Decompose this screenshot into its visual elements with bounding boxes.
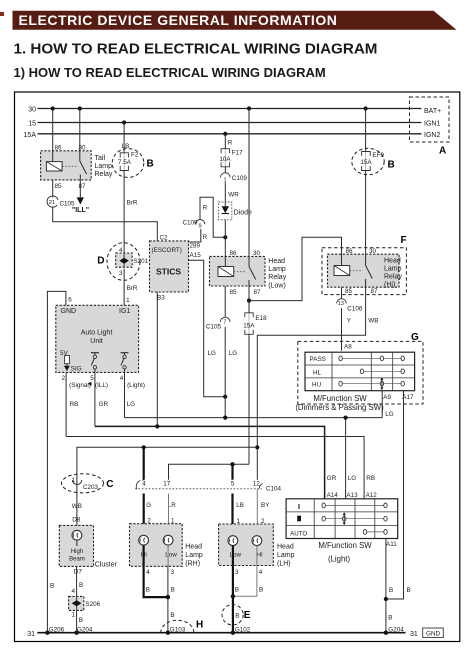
svg-text:(Light): (Light) <box>127 382 145 389</box>
svg-text:M/Function SW: M/Function SW <box>313 394 367 403</box>
svg-text:10A: 10A <box>219 156 231 163</box>
svg-text:30: 30 <box>28 107 36 114</box>
svg-text:G102: G102 <box>235 626 251 633</box>
svg-text:Lamp: Lamp <box>268 266 286 273</box>
svg-text:SIG: SIG <box>71 365 82 372</box>
svg-text:D7: D7 <box>74 569 83 576</box>
svg-text:A: A <box>439 146 446 157</box>
svg-text:F: F <box>401 235 407 246</box>
svg-text:Lamp: Lamp <box>185 552 203 559</box>
svg-text:Lamp: Lamp <box>277 552 295 559</box>
svg-text:5: 5 <box>231 481 235 488</box>
svg-text:GR: GR <box>99 401 109 408</box>
svg-text:B: B <box>388 615 392 622</box>
svg-text:B: B <box>407 587 411 594</box>
svg-text:Cluster: Cluster <box>95 561 118 568</box>
svg-text:WB: WB <box>72 503 82 510</box>
svg-text:B: B <box>79 617 83 624</box>
svg-text:15A: 15A <box>243 323 255 330</box>
svg-text:(RH): (RH) <box>185 561 200 568</box>
svg-text:1) HOW TO READ ELECTRICAL WIRI: 1) HOW TO READ ELECTRICAL WIRING DIAGRAM <box>14 65 326 80</box>
svg-text:4: 4 <box>119 247 123 254</box>
svg-text:4: 4 <box>146 569 150 576</box>
svg-text:RB: RB <box>366 475 375 482</box>
svg-text:B: B <box>388 160 395 171</box>
svg-text:R: R <box>203 204 208 211</box>
svg-text:D: D <box>97 255 104 266</box>
svg-text:2: 2 <box>61 375 65 382</box>
svg-text:87: 87 <box>253 289 261 296</box>
svg-text:87: 87 <box>370 288 378 295</box>
svg-text:F2: F2 <box>131 152 139 159</box>
svg-text:85: 85 <box>54 183 62 190</box>
svg-text:Lamp: Lamp <box>384 266 402 273</box>
svg-text:B: B <box>389 587 393 594</box>
svg-text:Beam: Beam <box>69 557 85 563</box>
svg-text:Relay: Relay <box>95 171 113 178</box>
svg-text:3: 3 <box>171 569 175 576</box>
svg-text:BrR: BrR <box>127 285 138 292</box>
svg-text:Low: Low <box>230 552 242 559</box>
svg-text:4: 4 <box>142 481 146 488</box>
svg-text:C109: C109 <box>182 219 198 226</box>
svg-text:LB: LB <box>236 502 244 509</box>
svg-text:B: B <box>235 587 239 594</box>
svg-text:Head: Head <box>268 258 285 265</box>
svg-text:C105: C105 <box>206 323 222 330</box>
svg-text:1: 1 <box>71 477 75 484</box>
svg-text:Hi: Hi <box>257 552 263 559</box>
svg-text:WR: WR <box>228 192 239 199</box>
svg-text:7.5A: 7.5A <box>118 159 132 166</box>
svg-text:Head: Head <box>277 544 294 551</box>
svg-text:A9: A9 <box>383 394 391 401</box>
svg-text:7: 7 <box>223 320 226 326</box>
svg-text:(Hi): (Hi) <box>384 282 395 289</box>
svg-text:BrR: BrR <box>127 199 138 206</box>
svg-text:13: 13 <box>338 301 344 307</box>
svg-text:6: 6 <box>68 297 72 304</box>
svg-text:G: G <box>146 502 151 509</box>
svg-text:F17: F17 <box>232 150 243 157</box>
svg-text:C: C <box>106 479 113 490</box>
svg-text:G204: G204 <box>77 626 93 633</box>
svg-text:GND: GND <box>61 308 77 315</box>
svg-text:B: B <box>170 612 174 619</box>
svg-text:(Light): (Light) <box>328 555 351 564</box>
svg-text:LG: LG <box>229 350 238 357</box>
svg-text:1: 1 <box>126 297 130 304</box>
svg-text:High: High <box>71 549 83 555</box>
svg-text:E: E <box>244 610 251 621</box>
svg-text:IGN2: IGN2 <box>424 132 440 139</box>
svg-text:C109: C109 <box>232 175 248 182</box>
svg-text:B3: B3 <box>157 294 165 301</box>
svg-text:Lamp: Lamp <box>95 163 113 170</box>
svg-text:Head: Head <box>185 544 202 551</box>
svg-text:G103: G103 <box>170 626 186 633</box>
svg-text:(Signal): (Signal) <box>69 382 91 389</box>
svg-text:1. HOW TO READ ELECTRICAL WIRI: 1. HOW TO READ ELECTRICAL WIRING DIAGRAM <box>14 41 378 58</box>
svg-text:87: 87 <box>78 183 86 190</box>
svg-text:IGN1: IGN1 <box>424 121 440 128</box>
svg-text:I: I <box>298 502 300 511</box>
svg-text:WB: WB <box>368 318 378 325</box>
svg-text:R: R <box>228 139 233 146</box>
svg-text:LB: LB <box>122 143 130 150</box>
svg-text:3: 3 <box>119 270 123 277</box>
svg-text:Auto Light: Auto Light <box>81 329 113 336</box>
svg-text:31: 31 <box>27 631 35 638</box>
svg-text:C106: C106 <box>347 306 363 313</box>
svg-text:HL: HL <box>313 369 322 376</box>
svg-text:D8: D8 <box>72 516 81 523</box>
svg-text:(Low): (Low) <box>268 283 286 290</box>
svg-text:17: 17 <box>163 480 171 487</box>
svg-text:3: 3 <box>235 569 239 576</box>
svg-text:289: 289 <box>190 242 201 249</box>
svg-text:Tail: Tail <box>95 155 106 162</box>
svg-text:A13: A13 <box>346 492 358 499</box>
svg-text:LG: LG <box>348 475 357 482</box>
svg-text:30: 30 <box>369 248 377 255</box>
svg-text:H: H <box>196 619 203 630</box>
svg-text:15A: 15A <box>24 132 37 139</box>
svg-text:B: B <box>50 582 54 589</box>
svg-text:15: 15 <box>28 121 36 128</box>
svg-text:85: 85 <box>229 289 237 296</box>
svg-text:LG: LG <box>385 411 394 418</box>
svg-text:E18: E18 <box>255 315 267 322</box>
svg-text:GR: GR <box>327 475 337 482</box>
svg-text:GND: GND <box>426 630 440 637</box>
svg-text:A15: A15 <box>190 252 202 259</box>
svg-text:PASS: PASS <box>310 356 326 363</box>
svg-text:IG1: IG1 <box>119 308 130 315</box>
svg-text:B: B <box>146 587 150 594</box>
svg-text:Low: Low <box>165 552 177 559</box>
svg-text:A14: A14 <box>327 492 339 499</box>
svg-text:RB: RB <box>70 401 79 408</box>
svg-text:B: B <box>259 587 263 594</box>
svg-text:G: G <box>411 332 419 343</box>
svg-text:Unit: Unit <box>90 338 103 345</box>
svg-text:C203: C203 <box>83 484 99 491</box>
svg-text:(LH): (LH) <box>277 561 291 568</box>
svg-text:5: 5 <box>90 375 94 382</box>
svg-text:STICS: STICS <box>156 267 181 277</box>
svg-text:12: 12 <box>253 480 261 487</box>
svg-text:15A: 15A <box>360 159 372 166</box>
svg-text:BY: BY <box>261 502 270 509</box>
svg-text:31: 31 <box>410 631 418 638</box>
svg-text:(Dimmers & Passing SW): (Dimmers & Passing SW) <box>295 403 384 412</box>
svg-text:4: 4 <box>259 569 263 576</box>
svg-text:R: R <box>203 234 208 241</box>
svg-text:S206: S206 <box>85 601 100 608</box>
svg-text:86: 86 <box>345 248 353 255</box>
svg-text:LG: LG <box>208 350 217 357</box>
svg-text:Head: Head <box>384 258 401 265</box>
svg-text:C104: C104 <box>266 485 282 492</box>
svg-text:EF9: EF9 <box>372 152 384 159</box>
svg-text:AUTO: AUTO <box>290 530 307 537</box>
svg-text:(ILL): (ILL) <box>95 382 108 389</box>
svg-text:M/Function SW: M/Function SW <box>318 541 372 550</box>
svg-text:"ILL": "ILL" <box>72 207 89 214</box>
svg-text:B: B <box>147 159 154 170</box>
svg-text:LG: LG <box>127 401 136 408</box>
svg-text:4: 4 <box>120 375 124 382</box>
svg-text:A8: A8 <box>344 343 352 350</box>
svg-text:S201: S201 <box>133 258 148 265</box>
svg-text:4: 4 <box>71 588 75 595</box>
svg-text:LR: LR <box>168 502 177 509</box>
svg-text:30: 30 <box>78 145 86 152</box>
svg-text:1: 1 <box>71 612 75 619</box>
svg-text:85: 85 <box>345 288 353 295</box>
svg-text:ELECTRIC DEVICE GENERAL INFORM: ELECTRIC DEVICE GENERAL INFORMATION <box>19 12 338 28</box>
svg-text:B: B <box>171 587 175 594</box>
svg-text:A17: A17 <box>402 394 414 401</box>
svg-text:30: 30 <box>253 250 261 257</box>
svg-text:HU: HU <box>312 382 322 389</box>
svg-text:G206: G206 <box>49 626 65 633</box>
svg-text:B: B <box>79 582 83 589</box>
svg-text:Relay: Relay <box>384 274 402 281</box>
svg-text:21: 21 <box>49 200 55 206</box>
svg-text:A11: A11 <box>386 541 397 548</box>
svg-text:B: B <box>235 613 239 620</box>
svg-text:A12: A12 <box>366 492 378 499</box>
svg-text:(ESCORT): (ESCORT) <box>152 247 182 254</box>
svg-text:BAT+: BAT+ <box>424 108 441 115</box>
svg-text:86: 86 <box>229 250 237 257</box>
svg-text:Relay: Relay <box>268 274 286 281</box>
svg-text:9: 9 <box>198 224 201 230</box>
svg-text:86: 86 <box>54 145 62 152</box>
